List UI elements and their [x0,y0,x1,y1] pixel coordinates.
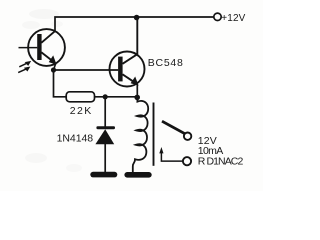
svg-text:+12V: +12V [221,13,245,24]
svg-text:22K: 22K [70,105,92,117]
svg-text:R D1NAC2: R D1NAC2 [198,155,244,167]
svg-text:1N4148: 1N4148 [57,132,94,144]
svg-text:BC548: BC548 [148,57,183,69]
